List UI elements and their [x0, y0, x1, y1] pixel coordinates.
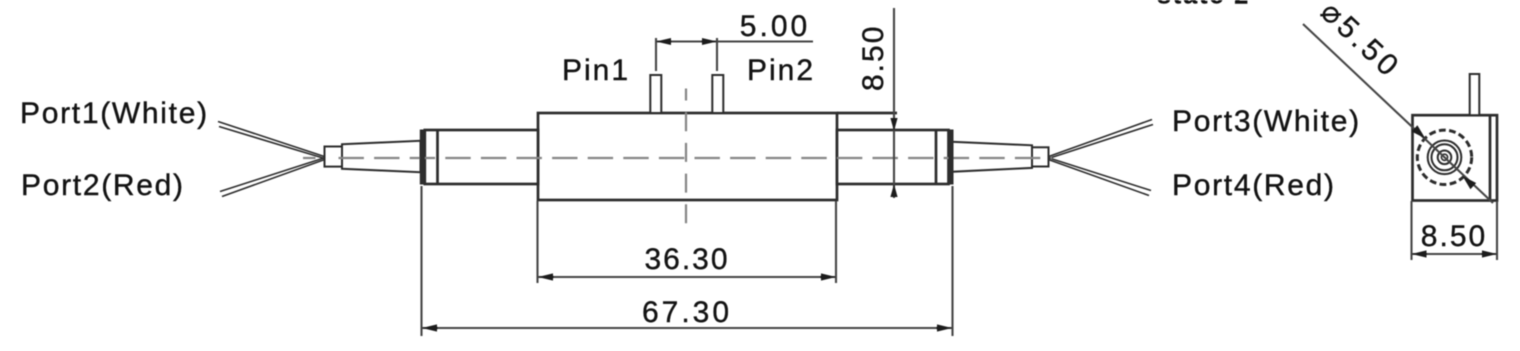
centerline horizontal lead-in dash [303, 157, 316, 159]
end view circle 2 [1428, 141, 1462, 175]
end view square housing [1413, 115, 1498, 200]
left boot tip box [325, 147, 343, 167]
left neck end cap [420, 130, 425, 185]
main body [538, 113, 837, 200]
left boot taper [342, 141, 421, 172]
diameter leader line [1303, 24, 1493, 203]
svg-text:67.30: 67.30 [642, 296, 732, 329]
right boot taper [952, 142, 1033, 172]
pin 1 body [650, 75, 661, 113]
dimension 8.50 neck height [890, 8, 897, 198]
fiber port1 [218, 122, 325, 159]
svg-text:8.50: 8.50 [1421, 220, 1487, 253]
svg-text:Pin2: Pin2 [747, 54, 815, 87]
end view ferrule circle outer [1417, 130, 1471, 184]
dimension 8.50 end view [1412, 201, 1498, 260]
left neck inner collar line [436, 130, 439, 184]
end view inner edge line [1489, 115, 1492, 200]
centerline horizontal main axis [339, 157, 1053, 159]
svg-text:Port4(Red): Port4(Red) [1172, 169, 1336, 202]
svg-text:⌀5.50: ⌀5.50 [1314, 0, 1407, 85]
svg-text:state 2: state 2 [1157, 0, 1250, 10]
svg-text:Port1(White): Port1(White) [20, 97, 209, 130]
fiber port3 [1048, 120, 1153, 159]
fiber port2 [220, 158, 325, 197]
dimension 5.00 [656, 38, 813, 71]
svg-text:Pin1: Pin1 [562, 54, 630, 87]
dimension 36.30 [538, 201, 837, 283]
end view circle 3 [1432, 144, 1458, 170]
right boot tip box [1032, 147, 1049, 166]
centerline vertical body center [685, 89, 687, 236]
fiber port4 [1048, 158, 1151, 196]
body top edge extension to dim line [837, 112, 897, 115]
svg-text:Port3(White): Port3(White) [1172, 105, 1361, 138]
svg-text:36.30: 36.30 [644, 243, 729, 276]
svg-text:Port2(Red): Port2(Red) [21, 169, 185, 202]
end view circle 4 [1438, 151, 1452, 165]
svg-text:5.00: 5.00 [740, 10, 810, 43]
right neck inner collar line [935, 130, 938, 184]
end view circle innermost [1441, 154, 1447, 160]
right neck end cap [949, 130, 954, 185]
right neck tube [837, 130, 949, 184]
left neck tube [425, 130, 538, 184]
dimension 67.30 [422, 186, 953, 336]
svg-text:8.50: 8.50 [857, 25, 890, 91]
pin 2 body [712, 75, 723, 113]
end view pin [1470, 74, 1480, 115]
